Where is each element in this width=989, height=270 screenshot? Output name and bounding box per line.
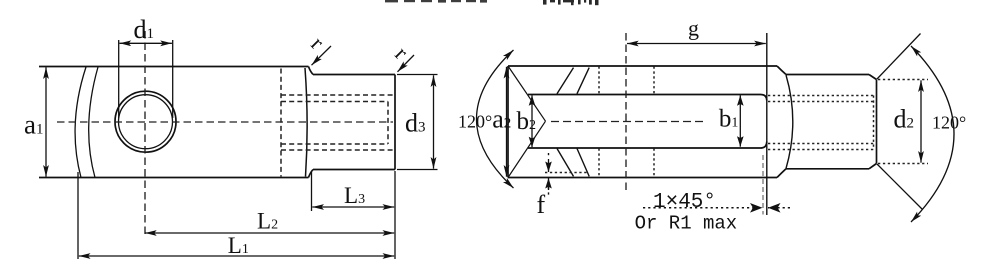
title text cut off at top xyxy=(385,0,599,5)
body bottom edge xyxy=(508,177,777,179)
dimension d1 extension lines xyxy=(118,40,120,118)
chamfer hidden gray line xyxy=(762,155,764,215)
svg-text:g: g xyxy=(688,16,699,41)
dimension d2 line xyxy=(920,80,922,162)
slot end / body right edge line xyxy=(766,33,768,215)
center 120 deg V top line xyxy=(877,34,921,80)
step chamfer top xyxy=(309,67,314,75)
hole hidden line bottom right xyxy=(653,149,655,178)
spigot right end edge xyxy=(876,80,878,164)
hole hidden line top right xyxy=(653,67,655,95)
hole outer circle xyxy=(115,91,176,152)
left end tangent arc 1 xyxy=(75,67,86,178)
svg-text:L3: L3 xyxy=(344,183,365,208)
thread minor top xyxy=(281,101,388,103)
center 120 deg V bottom line xyxy=(877,164,923,210)
body top edge xyxy=(508,65,777,67)
svg-text:d2: d2 xyxy=(894,105,915,134)
step chamfer bottom xyxy=(309,170,314,178)
leader r (step) xyxy=(312,46,332,65)
dimension L2 line xyxy=(145,232,394,234)
hole inner circle xyxy=(119,95,173,149)
hole hidden line top left xyxy=(598,67,600,95)
dimension f leader top xyxy=(548,153,550,196)
shank top edge xyxy=(313,74,395,76)
svg-text:r: r xyxy=(390,41,413,64)
dimension d1 line xyxy=(120,42,172,44)
d2 extension dotted top xyxy=(878,79,928,81)
L3 extension line xyxy=(311,172,313,211)
hidden lines, right figure xyxy=(545,67,928,178)
thread minor bottom xyxy=(281,143,388,145)
body bottom edge xyxy=(39,177,309,179)
svg-text:L2: L2 xyxy=(257,209,278,234)
step chamfer top xyxy=(777,66,786,75)
dimension L1 line xyxy=(79,255,394,257)
svg-text:120°: 120° xyxy=(932,113,966,133)
thread major bottom xyxy=(281,149,395,151)
dimension a1 xyxy=(45,67,47,176)
spigot thread end vertical xyxy=(873,96,875,150)
svg-text:d3: d3 xyxy=(405,109,426,138)
step transition arc xyxy=(305,68,307,177)
hole vertical centerline xyxy=(144,31,146,236)
flat hidden line xyxy=(545,172,588,174)
angle arc 120 deg right xyxy=(911,46,954,222)
svg-text:1×45°: 1×45° xyxy=(653,191,716,214)
slot top edge xyxy=(528,95,767,101)
body left edge xyxy=(507,66,509,178)
shank right end edge xyxy=(394,75,396,170)
hatch line bottom 1 xyxy=(557,149,574,177)
centerlines, right figure xyxy=(551,33,763,215)
body top edge xyxy=(39,66,309,68)
dimensions, left figure xyxy=(46,40,438,259)
dimension b2 line xyxy=(531,95,533,147)
shank end extension line xyxy=(394,171,396,259)
dimensions, right figure xyxy=(477,34,955,223)
svg-text:b1: b1 xyxy=(719,106,739,133)
chamfer dim leader right xyxy=(768,207,790,209)
angle arc 120 deg left xyxy=(477,50,514,188)
dimension d3 extension lines xyxy=(397,74,438,76)
hole vertical centerline xyxy=(625,33,627,194)
spigot thread hidden top 1 xyxy=(768,95,875,97)
left end tangent arc 2 xyxy=(89,67,98,178)
countersink V bottom line xyxy=(508,121,546,177)
leader r (shank end) xyxy=(398,55,415,72)
hidden thread lines, left figure xyxy=(281,69,395,177)
thread end vertical xyxy=(387,102,389,145)
thread major top xyxy=(281,94,395,96)
svg-text:b2: b2 xyxy=(517,108,537,135)
step chamfer bottom xyxy=(777,169,786,178)
spigot end chamfer top xyxy=(869,75,877,80)
svg-text:a1: a1 xyxy=(24,110,43,140)
dimension b1 line xyxy=(739,95,741,146)
centerlines, left figure xyxy=(57,31,393,236)
spigot end chamfer bottom xyxy=(869,164,877,169)
step transition arc xyxy=(786,75,793,169)
countersink V top line xyxy=(508,66,546,121)
svg-text:d1: d1 xyxy=(134,15,155,44)
d2 extension dotted bottom xyxy=(878,163,928,165)
spigot top edge xyxy=(786,74,869,76)
hatch line top 2 xyxy=(577,68,589,94)
horizontal centerline xyxy=(57,121,393,123)
thread hole left end xyxy=(280,69,282,177)
horizontal centerline xyxy=(551,121,706,123)
chamfer dim leader left xyxy=(643,207,763,209)
svg-text:120°a2: 120°a2 xyxy=(458,105,511,134)
hatch line top 1 xyxy=(557,68,574,94)
svg-text:Or R1 max: Or R1 max xyxy=(635,213,738,235)
dimension a2 line xyxy=(506,67,508,177)
dimension L3 line xyxy=(312,206,394,208)
L1 extension line xyxy=(77,172,79,259)
spigot thread hidden bottom 2 xyxy=(768,149,875,151)
spigot thread hidden bottom 1 xyxy=(768,143,875,145)
spigot thread hidden top 2 xyxy=(768,101,875,103)
shank bottom edge xyxy=(313,169,395,171)
spigot bottom edge xyxy=(786,168,869,170)
slot bottom edge xyxy=(528,142,767,149)
hatch line bottom 2 xyxy=(577,149,589,177)
dimension d3 line xyxy=(433,75,435,168)
dimension g line xyxy=(627,43,766,45)
svg-text:L1: L1 xyxy=(228,233,249,258)
svg-text:f: f xyxy=(537,190,546,219)
hole hidden line bottom left xyxy=(598,149,600,178)
